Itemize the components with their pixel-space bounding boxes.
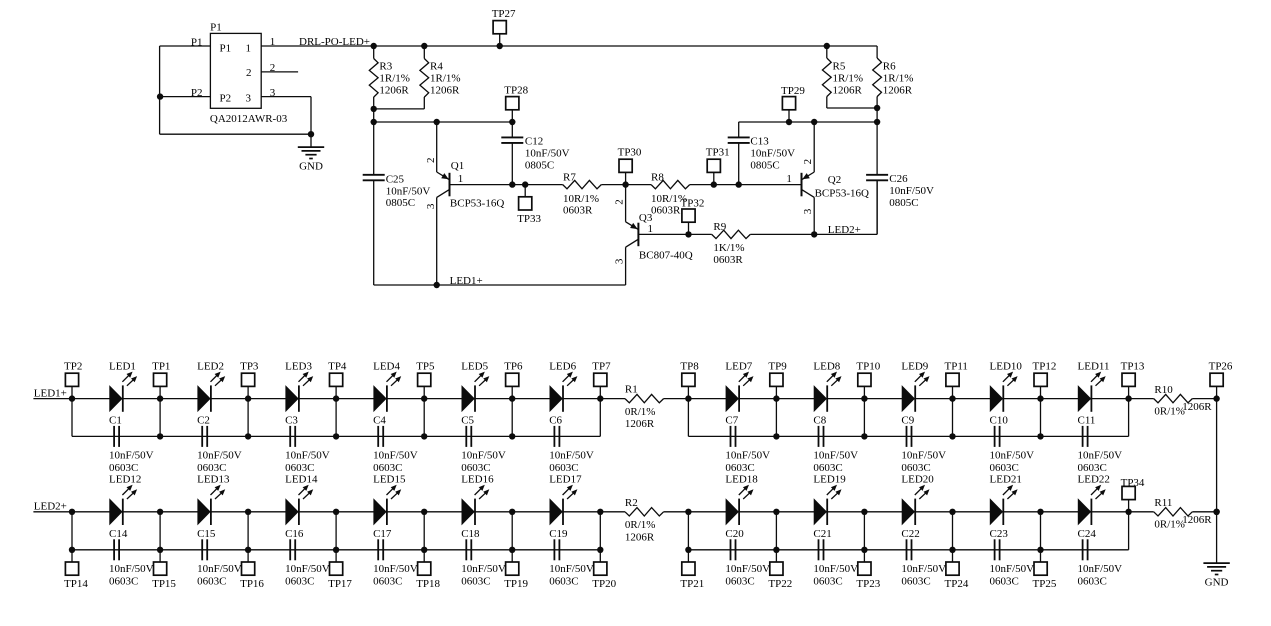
svg-text:2: 2	[613, 199, 625, 205]
junction node	[1037, 509, 1043, 515]
svg-text:TP18: TP18	[416, 578, 440, 590]
junction cap bus	[773, 547, 779, 553]
svg-text:TP3: TP3	[240, 360, 259, 372]
svg-text:0603R: 0603R	[651, 205, 681, 217]
junction TP31	[711, 181, 717, 187]
svg-text:0603C: 0603C	[109, 576, 138, 588]
resistor R4 1R/1% 1206R	[420, 46, 461, 109]
svg-text:C23: C23	[990, 528, 1009, 540]
LED LED12	[109, 474, 141, 526]
svg-text:0603R: 0603R	[713, 254, 743, 266]
svg-text:LED8: LED8	[813, 360, 840, 372]
svg-text:1: 1	[270, 36, 276, 48]
junction R6 bottom	[874, 105, 880, 111]
svg-text:10nF/50V: 10nF/50V	[109, 563, 154, 575]
capacitor C21 10nF/50V 0603C	[813, 528, 858, 588]
svg-text:0603C: 0603C	[901, 462, 930, 474]
testpoint TP10	[856, 360, 880, 398]
wire node vertical	[775, 512, 777, 550]
svg-text:10nF/50V: 10nF/50V	[1078, 563, 1123, 575]
wire node vertical	[952, 512, 954, 550]
svg-text:10nF/50V: 10nF/50V	[525, 148, 570, 160]
net label LED1+ (top)	[450, 275, 483, 287]
svg-text:C17: C17	[373, 528, 392, 540]
capacitor C20 10nF/50V 0603C	[725, 528, 770, 588]
junction cap bus	[157, 433, 163, 439]
svg-text:0603C: 0603C	[109, 462, 138, 474]
svg-text:TP34: TP34	[1121, 477, 1145, 489]
junction node	[597, 509, 603, 515]
capacitor C11 10nF/50V 0603C	[1078, 415, 1123, 475]
svg-text:10nF/50V: 10nF/50V	[1078, 450, 1123, 462]
svg-text:LED17: LED17	[549, 474, 582, 486]
junction cap bus	[509, 547, 515, 553]
junction TP27	[497, 43, 503, 49]
wire node vertical	[863, 399, 865, 437]
testpoint TP34	[1121, 477, 1145, 512]
junction C13 bottom	[736, 181, 742, 187]
svg-text:C19: C19	[549, 528, 568, 540]
svg-text:TP27: TP27	[492, 8, 516, 20]
svg-text:10nF/50V: 10nF/50V	[461, 450, 506, 462]
LED LED20	[901, 474, 934, 526]
testpoint TP12	[1033, 360, 1057, 398]
svg-text:C1: C1	[109, 415, 122, 427]
junction R5 top	[824, 43, 830, 49]
svg-text:TP23: TP23	[856, 578, 880, 590]
svg-text:LED1+: LED1+	[450, 275, 483, 287]
testpoint TP13	[1121, 360, 1145, 398]
wire node vertical	[159, 399, 161, 437]
svg-text:10nF/50V: 10nF/50V	[373, 450, 418, 462]
svg-text:0603C: 0603C	[197, 462, 226, 474]
wire base rail left (R3 to C12)	[374, 121, 513, 123]
resistor R6 1R/1% 1206R	[873, 46, 914, 108]
capacitor C8 10nF/50V 0603C	[813, 415, 858, 475]
svg-text:Q2: Q2	[828, 174, 841, 186]
svg-text:LED11: LED11	[1078, 360, 1110, 372]
wire node vertical	[863, 512, 865, 550]
svg-text:10nF/50V: 10nF/50V	[725, 563, 770, 575]
wire node vertical	[335, 512, 337, 550]
junction node	[1125, 509, 1131, 515]
junction C26 top	[874, 119, 880, 125]
testpoint TP9	[768, 360, 787, 398]
junction node	[861, 509, 867, 515]
junction R3 bottom	[371, 106, 377, 112]
svg-text:TP32: TP32	[681, 198, 705, 210]
resistor R5 1R/1% 1206R	[822, 46, 863, 108]
svg-text:10nF/50V: 10nF/50V	[813, 450, 858, 462]
testpoint TP19	[504, 550, 528, 590]
svg-text:C15: C15	[197, 528, 216, 540]
junction GND node	[308, 131, 314, 137]
junction cap bus	[245, 433, 251, 439]
wire node vertical	[159, 512, 161, 550]
LED LED7	[725, 360, 753, 412]
svg-text:10nF/50V: 10nF/50V	[901, 450, 946, 462]
svg-text:C12: C12	[525, 136, 543, 148]
svg-text:LED9: LED9	[901, 360, 928, 372]
wire R3-R4 bottom link	[374, 109, 425, 122]
svg-text:C14: C14	[109, 528, 128, 540]
junction node	[949, 509, 955, 515]
wire R5-R6 bottom link	[827, 108, 877, 122]
testpoint TP26	[1209, 360, 1233, 398]
wire main row LED1+	[33, 398, 1216, 400]
wire cap bus right	[688, 512, 1128, 550]
resistor R10 0R/1% 1206R	[1154, 384, 1213, 418]
svg-text:C24: C24	[1078, 528, 1097, 540]
svg-text:LED15: LED15	[373, 474, 406, 486]
junction TP29	[786, 119, 792, 125]
LED LED14	[285, 474, 318, 526]
svg-text:GND: GND	[299, 161, 323, 173]
wire LED1+ rail	[374, 284, 626, 286]
junction cap bus	[861, 547, 867, 553]
junction cap bus	[333, 547, 339, 553]
svg-text:1: 1	[786, 173, 792, 185]
testpoint TP29	[781, 85, 805, 122]
capacitor C14 10nF/50V 0603C	[109, 528, 154, 588]
svg-text:R7: R7	[563, 172, 576, 184]
wire node vertical	[423, 512, 425, 550]
capacitor C6 10nF/50V 0603C	[549, 415, 594, 475]
ground GND (bottom)	[1203, 563, 1229, 589]
testpoint TP27	[492, 8, 516, 46]
testpoint TP5	[416, 360, 435, 398]
ground GND (P1)	[298, 134, 324, 172]
LED LED4	[373, 360, 401, 412]
capacitor C7 10nF/50V 0603C	[725, 415, 770, 475]
svg-text:10R/1%: 10R/1%	[563, 193, 599, 205]
junction cap bus	[1037, 433, 1043, 439]
testpoint TP15	[152, 550, 176, 590]
LED LED15	[373, 474, 406, 526]
junction node	[421, 509, 427, 515]
junction Q1 collector LED1+	[434, 282, 440, 288]
capacitor C5 10nF/50V 0603C	[461, 415, 506, 475]
svg-text:R5: R5	[833, 61, 846, 73]
resistor R3 1R/1% 1206R	[369, 46, 410, 109]
svg-text:10nF/50V: 10nF/50V	[725, 450, 770, 462]
svg-text:R4: R4	[430, 61, 443, 73]
LED LED1	[109, 360, 137, 412]
capacitor C18 10nF/50V 0603C	[461, 528, 506, 588]
svg-text:LED12: LED12	[109, 474, 141, 486]
LED LED10	[990, 360, 1023, 412]
svg-text:TP4: TP4	[328, 360, 347, 372]
net label DRL-PO-LED+	[299, 36, 370, 48]
LED LED16	[461, 474, 494, 526]
LED LED21	[990, 474, 1022, 526]
svg-text:TP8: TP8	[680, 360, 699, 372]
svg-text:0805C: 0805C	[386, 197, 415, 209]
junction TP33	[522, 181, 528, 187]
testpoint TP3	[240, 360, 259, 398]
junction cap bus	[421, 547, 427, 553]
svg-text:0R/1%: 0R/1%	[625, 406, 656, 418]
junction node	[157, 509, 163, 515]
svg-text:2: 2	[802, 159, 814, 165]
wire base line Q1-R7	[450, 184, 563, 186]
junction Q2 pin 2	[811, 119, 817, 125]
capacitor C13 10nF/50V 0805C	[728, 122, 795, 185]
svg-text:0805C: 0805C	[889, 197, 918, 209]
testpoint TP20	[592, 550, 616, 590]
wire Q2 collector to LED2+	[813, 197, 815, 234]
svg-text:0603C: 0603C	[725, 462, 754, 474]
svg-text:TP15: TP15	[152, 578, 176, 590]
svg-text:0603R: 0603R	[563, 205, 593, 217]
svg-text:1R/1%: 1R/1%	[883, 73, 914, 85]
svg-text:10nF/50V: 10nF/50V	[109, 450, 154, 462]
svg-text:C11: C11	[1078, 415, 1096, 427]
svg-text:0603C: 0603C	[813, 462, 842, 474]
svg-text:LED22: LED22	[1078, 474, 1110, 486]
svg-text:0603C: 0603C	[373, 576, 402, 588]
svg-text:LED1+: LED1+	[34, 387, 67, 399]
svg-text:C16: C16	[285, 528, 304, 540]
junction node	[245, 395, 251, 401]
wire node vertical	[1040, 399, 1042, 437]
LED LED11	[1078, 360, 1110, 412]
junction cap bus	[1037, 547, 1043, 553]
svg-text:LED10: LED10	[990, 360, 1023, 372]
svg-text:TP13: TP13	[1121, 360, 1145, 372]
testpoint TP25	[1033, 550, 1057, 590]
capacitor C12 10nF/50V 0805C	[501, 122, 569, 185]
svg-text:R3: R3	[379, 61, 392, 73]
capacitor C15 10nF/50V 0603C	[197, 528, 242, 588]
svg-text:P2: P2	[220, 93, 232, 105]
svg-text:0603C: 0603C	[1078, 462, 1107, 474]
junction cap bus	[333, 433, 339, 439]
svg-text:BCP53-16Q: BCP53-16Q	[450, 197, 504, 209]
LED LED19	[813, 474, 846, 526]
svg-text:C13: C13	[750, 136, 769, 148]
wire P1 pin 3 to GND	[261, 87, 311, 134]
svg-text:TP30: TP30	[618, 146, 642, 158]
svg-text:TP24: TP24	[945, 578, 969, 590]
svg-text:BCP53-16Q: BCP53-16Q	[815, 187, 869, 199]
junction node	[245, 509, 251, 515]
LED LED8	[813, 360, 841, 412]
testpoint TP30	[618, 146, 642, 184]
testpoint TP11	[945, 360, 968, 398]
wire rail right (C13 to C26)	[739, 121, 877, 123]
svg-text:LED19: LED19	[813, 474, 846, 486]
svg-text:LED13: LED13	[197, 474, 230, 486]
svg-text:0603C: 0603C	[549, 462, 578, 474]
svg-text:10nF/50V: 10nF/50V	[990, 563, 1035, 575]
wire node vertical	[423, 399, 425, 437]
junction cap bus	[949, 547, 955, 553]
wire TP26 vertical to GND	[1216, 399, 1218, 563]
wire P1 input pin P2	[160, 87, 211, 99]
capacitor C22 10nF/50V 0603C	[901, 528, 946, 588]
svg-text:DRL-PO-LED+: DRL-PO-LED+	[299, 36, 370, 48]
wire node vertical	[952, 399, 954, 437]
capacitor C23 10nF/50V 0603C	[990, 528, 1035, 588]
svg-text:LED7: LED7	[725, 360, 752, 372]
svg-text:C2: C2	[197, 415, 210, 427]
wire Q3 collector to LED1+	[625, 247, 627, 285]
junction node	[949, 395, 955, 401]
svg-text:TP31: TP31	[706, 146, 730, 158]
svg-text:TP28: TP28	[504, 85, 528, 97]
svg-text:0603C: 0603C	[461, 576, 490, 588]
svg-text:2: 2	[425, 158, 437, 164]
svg-text:1206R: 1206R	[625, 418, 655, 430]
svg-text:QA2012AWR-03: QA2012AWR-03	[210, 113, 288, 125]
svg-text:TP33: TP33	[517, 213, 541, 225]
svg-text:C3: C3	[285, 415, 298, 427]
svg-text:TP29: TP29	[781, 85, 805, 97]
testpoint TP2	[64, 360, 82, 398]
svg-text:10nF/50V: 10nF/50V	[373, 563, 418, 575]
wire R9 to LED2+ / C26	[750, 180, 877, 234]
svg-text:LED3: LED3	[285, 360, 312, 372]
net label LED1+	[34, 387, 67, 399]
svg-text:LED16: LED16	[461, 474, 494, 486]
svg-text:C4: C4	[373, 415, 386, 427]
connector P1 (QA2012AWR-03)	[210, 22, 288, 125]
svg-text:10nF/50V: 10nF/50V	[889, 185, 934, 197]
junction cap bus	[597, 547, 603, 553]
junction R4 top	[421, 43, 427, 49]
transistor Q3 BC807-40Q	[613, 185, 692, 265]
svg-text:LED1: LED1	[109, 360, 136, 372]
capacitor C10 10nF/50V 0603C	[990, 415, 1035, 475]
LED LED18	[725, 474, 758, 526]
net label LED2+ (top)	[828, 224, 861, 236]
junction cap bus	[69, 547, 75, 553]
transistor Q2 BCP53-16Q	[786, 122, 869, 214]
testpoint TP32	[681, 198, 705, 235]
svg-text:1206R: 1206R	[1182, 514, 1212, 526]
junction node	[685, 395, 691, 401]
wire left loop P1-P2-GND	[160, 46, 311, 134]
junction cap bus	[245, 547, 251, 553]
svg-text:C25: C25	[386, 173, 405, 185]
testpoint TP17	[328, 550, 352, 590]
svg-text:0R/1%: 0R/1%	[625, 519, 656, 531]
svg-text:0603C: 0603C	[813, 576, 842, 588]
svg-text:1206R: 1206R	[833, 85, 863, 97]
wire P1 pin 1 to node DRL-PO-LED+	[261, 36, 374, 48]
LED LED5	[461, 360, 489, 412]
svg-text:TP2: TP2	[64, 360, 82, 372]
junction node	[773, 509, 779, 515]
svg-text:0603C: 0603C	[549, 576, 578, 588]
svg-text:LED2+: LED2+	[828, 224, 861, 236]
capacitor C2 10nF/50V 0603C	[197, 415, 242, 475]
testpoint TP24	[945, 550, 969, 590]
wire main row LED2+	[33, 511, 1216, 513]
testpoint TP4	[328, 360, 347, 398]
junction node	[685, 509, 691, 515]
junction TP26 row2	[1213, 509, 1219, 515]
capacitor C19 10nF/50V 0603C	[549, 528, 594, 588]
svg-text:1R/1%: 1R/1%	[430, 73, 461, 85]
svg-text:LED18: LED18	[725, 474, 758, 486]
svg-text:C6: C6	[549, 415, 562, 427]
svg-text:R9: R9	[713, 221, 726, 233]
svg-text:0603C: 0603C	[461, 462, 490, 474]
svg-text:GND: GND	[1205, 577, 1229, 589]
svg-text:LED4: LED4	[373, 360, 400, 372]
svg-text:10nF/50V: 10nF/50V	[813, 563, 858, 575]
svg-text:C7: C7	[725, 415, 738, 427]
testpoint TP7	[592, 360, 611, 398]
svg-text:TP7: TP7	[592, 360, 611, 372]
resistor R7 10R/1% 0603R	[563, 172, 602, 217]
wire node vertical	[1040, 512, 1042, 550]
capacitor C1 10nF/50V 0603C	[109, 415, 154, 475]
svg-text:0805C: 0805C	[750, 160, 779, 172]
svg-text:3: 3	[802, 208, 814, 214]
svg-text:TP22: TP22	[768, 578, 792, 590]
svg-text:C20: C20	[725, 528, 744, 540]
transistor Q1 BCP53-16Q	[425, 122, 505, 209]
svg-text:R8: R8	[651, 172, 664, 184]
wire node vertical	[247, 512, 249, 550]
svg-text:C21: C21	[813, 528, 831, 540]
wire node vertical	[775, 399, 777, 437]
junction node	[333, 509, 339, 515]
wire P1 input pin P1	[160, 36, 211, 48]
LED LED13	[197, 474, 230, 526]
capacitor C4 10nF/50V 0603C	[373, 415, 418, 475]
testpoint TP18	[416, 550, 440, 590]
net label LED2+	[34, 501, 67, 513]
testpoint TP33	[517, 185, 541, 225]
svg-text:TP9: TP9	[768, 360, 787, 372]
junction node	[597, 395, 603, 401]
svg-text:10nF/50V: 10nF/50V	[990, 450, 1035, 462]
svg-text:TP11: TP11	[945, 360, 968, 372]
svg-text:Q1: Q1	[451, 160, 464, 172]
svg-text:BC807-40Q: BC807-40Q	[639, 250, 693, 262]
svg-text:R2: R2	[625, 497, 638, 509]
svg-text:10nF/50V: 10nF/50V	[285, 563, 330, 575]
svg-text:1206R: 1206R	[883, 85, 913, 97]
svg-text:TP5: TP5	[416, 360, 435, 372]
junction node	[1037, 395, 1043, 401]
resistor R8 10R/1% 0603R	[651, 172, 690, 217]
svg-text:R6: R6	[883, 61, 896, 73]
junction cap bus	[509, 433, 515, 439]
resistor R2 0R/1% 1206R	[625, 497, 664, 544]
junction cap bus	[861, 433, 867, 439]
capacitor C3 10nF/50V 0603C	[285, 415, 330, 475]
svg-text:R1: R1	[625, 384, 638, 396]
svg-text:1: 1	[458, 173, 464, 185]
wire R8-Q2 base	[690, 184, 802, 186]
svg-text:P1: P1	[210, 22, 222, 34]
junction TP30 / Q3 pin 2	[622, 181, 628, 187]
junction TP28 / C12	[509, 119, 515, 125]
junction P2 node	[157, 93, 163, 99]
svg-text:0603C: 0603C	[197, 576, 226, 588]
svg-text:0603C: 0603C	[990, 576, 1019, 588]
svg-text:2: 2	[270, 62, 276, 74]
wire node vertical	[511, 399, 513, 437]
svg-text:TP12: TP12	[1033, 360, 1057, 372]
capacitor C24 10nF/50V 0603C	[1078, 528, 1123, 588]
svg-text:LED2+: LED2+	[34, 501, 67, 513]
